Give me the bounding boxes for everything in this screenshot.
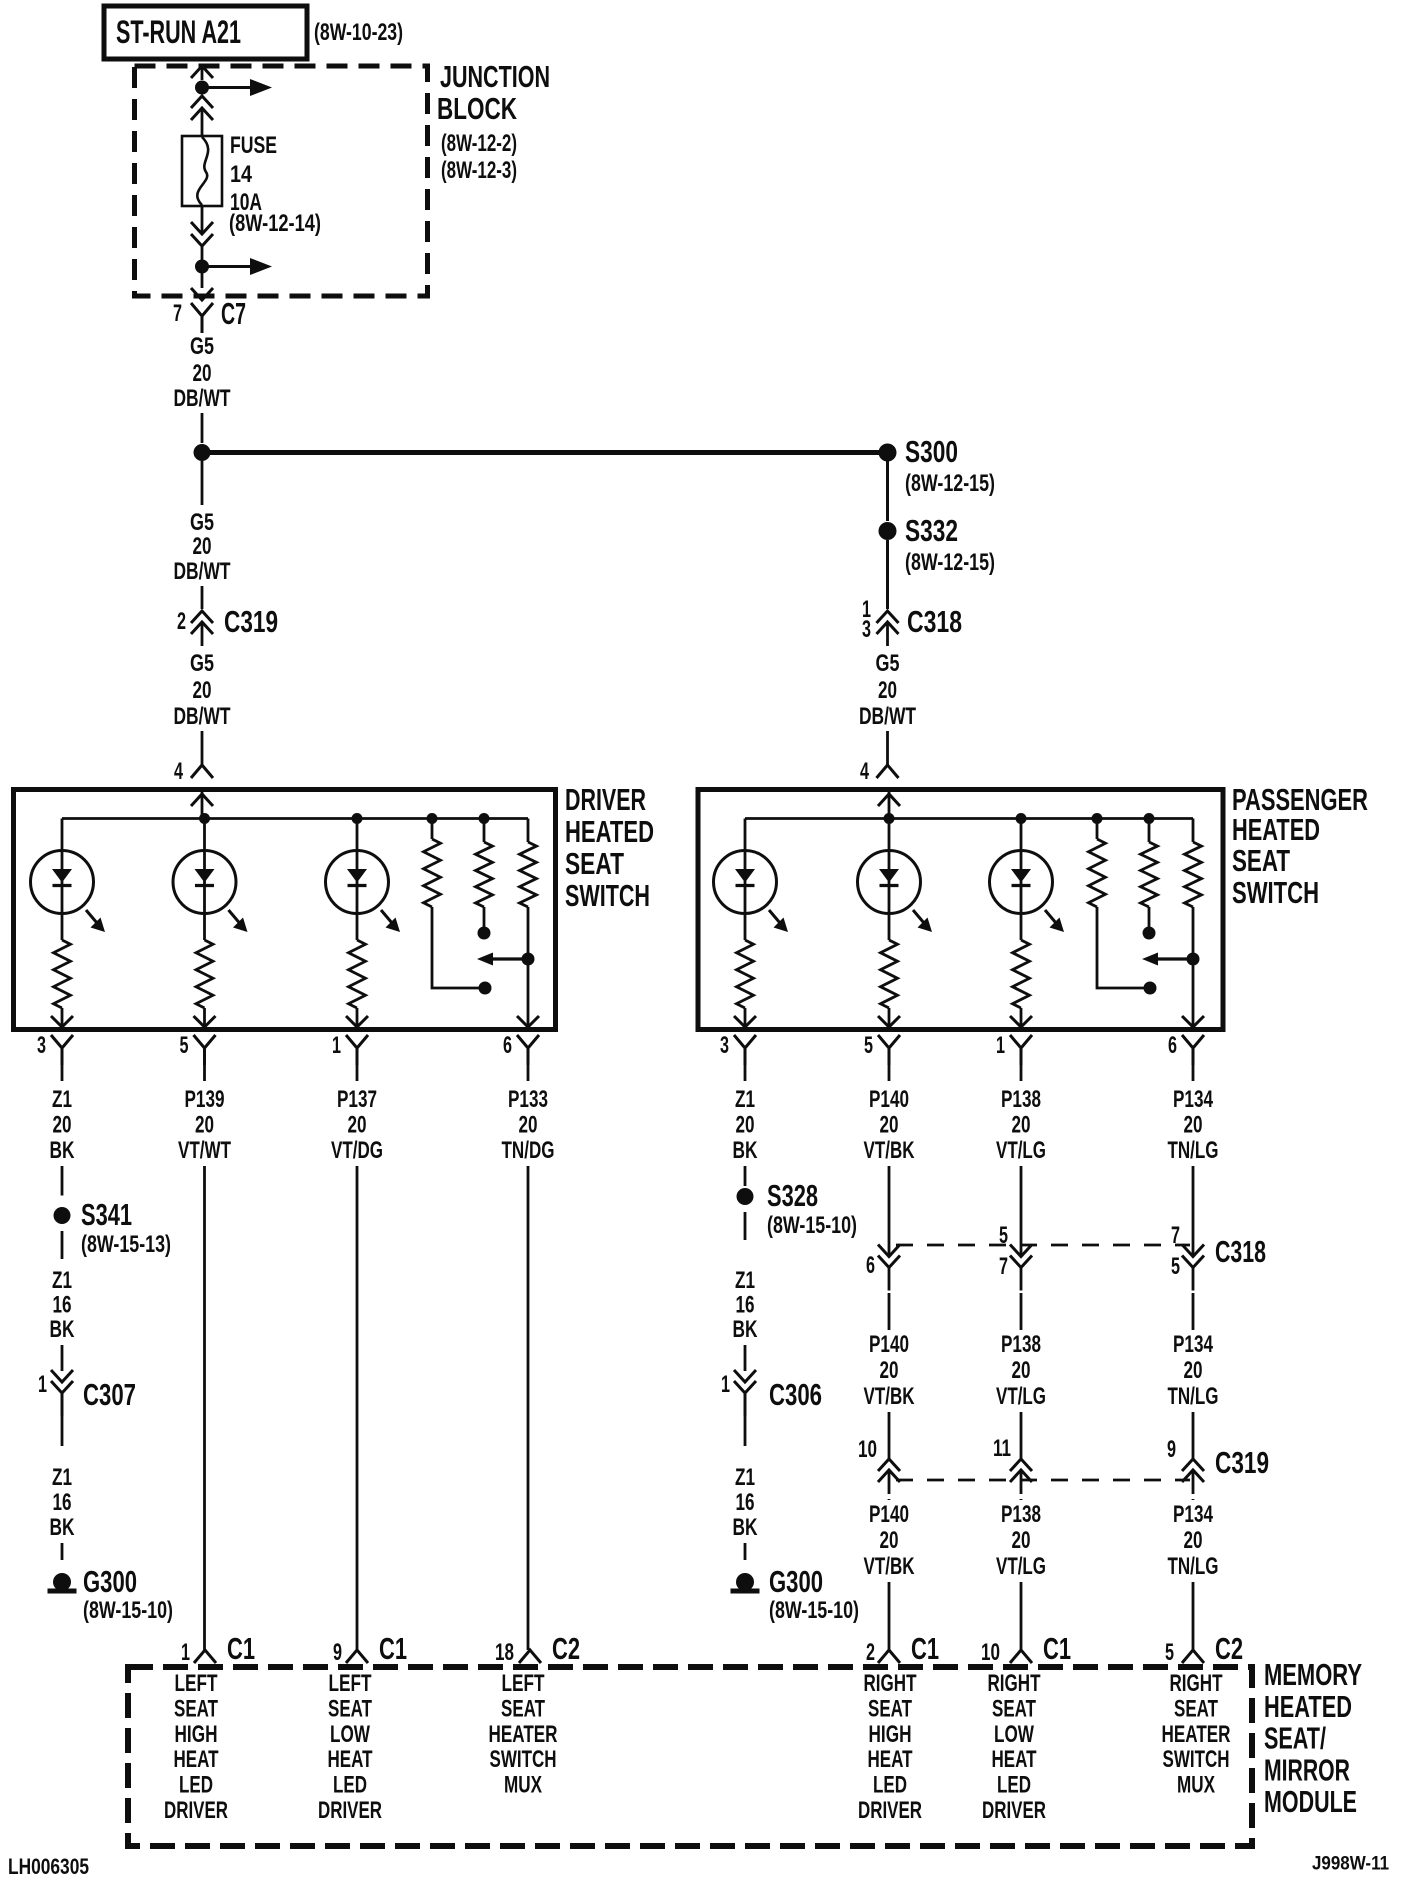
- svg-text:20: 20: [193, 533, 212, 560]
- svg-text:LED: LED: [333, 1772, 367, 1799]
- svg-text:C319: C319: [224, 604, 278, 639]
- svg-text:3: 3: [37, 1032, 46, 1059]
- svg-text:G5: G5: [190, 650, 214, 677]
- svg-text:Z1: Z1: [735, 1267, 755, 1294]
- svg-text:SEAT/: SEAT/: [1264, 1721, 1326, 1756]
- svg-text:HEATED: HEATED: [1232, 812, 1320, 847]
- svg-text:C1: C1: [911, 1631, 939, 1666]
- svg-text:S328: S328: [767, 1178, 818, 1213]
- svg-text:VT/BK: VT/BK: [864, 1137, 915, 1164]
- svg-text:10: 10: [981, 1639, 1000, 1666]
- svg-text:20: 20: [736, 1112, 755, 1139]
- svg-text:20: 20: [1012, 1357, 1031, 1384]
- svg-text:LEFT: LEFT: [502, 1670, 545, 1697]
- svg-text:1: 1: [332, 1032, 341, 1059]
- svg-text:C306: C306: [769, 1377, 822, 1412]
- svg-text:TN/LG: TN/LG: [1168, 1137, 1219, 1164]
- svg-text:P138: P138: [1001, 1331, 1041, 1358]
- svg-text:P140: P140: [869, 1086, 909, 1113]
- svg-text:C318: C318: [907, 604, 962, 639]
- svg-text:G300: G300: [769, 1564, 823, 1599]
- svg-text:C307: C307: [83, 1377, 136, 1412]
- svg-text:S341: S341: [81, 1197, 132, 1232]
- svg-text:J998W-11: J998W-11: [1312, 1854, 1389, 1875]
- svg-text:VT/BK: VT/BK: [864, 1553, 915, 1580]
- svg-text:20: 20: [880, 1527, 899, 1554]
- svg-text:4: 4: [860, 758, 869, 785]
- svg-text:P134: P134: [1173, 1331, 1213, 1358]
- svg-text:9: 9: [1167, 1436, 1176, 1463]
- svg-text:20: 20: [193, 360, 212, 387]
- svg-text:14: 14: [230, 161, 253, 188]
- svg-text:DRIVER: DRIVER: [318, 1797, 382, 1824]
- svg-text:S300: S300: [905, 434, 958, 469]
- svg-text:P134: P134: [1173, 1086, 1213, 1113]
- svg-text:S332: S332: [905, 513, 958, 548]
- svg-text:HEATER: HEATER: [1162, 1721, 1231, 1748]
- svg-text:4: 4: [174, 758, 183, 785]
- svg-text:DB/WT: DB/WT: [174, 558, 231, 585]
- svg-text:2: 2: [177, 608, 186, 635]
- svg-text:20: 20: [1012, 1112, 1031, 1139]
- svg-text:BK: BK: [50, 1137, 75, 1164]
- svg-text:6: 6: [866, 1252, 875, 1279]
- svg-text:SEAT: SEAT: [174, 1695, 218, 1722]
- svg-text:C2: C2: [552, 1631, 580, 1666]
- svg-text:JUNCTION: JUNCTION: [440, 59, 550, 94]
- svg-text:SEAT: SEAT: [1174, 1695, 1218, 1722]
- svg-text:VT/LG: VT/LG: [996, 1383, 1046, 1410]
- svg-text:SEAT: SEAT: [992, 1695, 1036, 1722]
- svg-text:DB/WT: DB/WT: [174, 703, 231, 730]
- svg-text:SWITCH: SWITCH: [1232, 875, 1319, 910]
- svg-text:BK: BK: [50, 1316, 75, 1343]
- svg-text:RIGHT: RIGHT: [988, 1670, 1041, 1697]
- svg-text:Z1: Z1: [735, 1464, 755, 1491]
- svg-text:1: 1: [721, 1371, 730, 1398]
- svg-text:5: 5: [1165, 1639, 1174, 1666]
- svg-text:HEATER: HEATER: [489, 1721, 558, 1748]
- svg-text:MEMORY: MEMORY: [1264, 1657, 1362, 1692]
- svg-text:P140: P140: [869, 1331, 909, 1358]
- svg-text:BK: BK: [733, 1137, 758, 1164]
- svg-text:20: 20: [195, 1112, 214, 1139]
- svg-text:C1: C1: [227, 1631, 255, 1666]
- svg-text:SEAT: SEAT: [328, 1695, 372, 1722]
- svg-text:20: 20: [519, 1112, 538, 1139]
- svg-text:ST-RUN A21: ST-RUN A21: [116, 14, 241, 50]
- svg-text:1: 1: [38, 1371, 47, 1398]
- svg-text:SEAT: SEAT: [1232, 843, 1290, 878]
- svg-text:SEAT: SEAT: [868, 1695, 912, 1722]
- svg-text:DB/WT: DB/WT: [859, 703, 916, 730]
- svg-text:FUSE: FUSE: [230, 132, 277, 159]
- svg-text:MIRROR: MIRROR: [1264, 1752, 1350, 1787]
- svg-text:SEAT: SEAT: [565, 846, 624, 881]
- svg-text:18: 18: [495, 1639, 514, 1666]
- svg-text:20: 20: [193, 677, 212, 704]
- svg-text:5: 5: [180, 1032, 189, 1059]
- svg-text:20: 20: [880, 1112, 899, 1139]
- svg-text:VT/WT: VT/WT: [178, 1137, 231, 1164]
- svg-text:G5: G5: [190, 509, 214, 536]
- svg-text:3: 3: [862, 616, 871, 643]
- svg-text:BK: BK: [50, 1514, 75, 1541]
- svg-text:C2: C2: [1215, 1631, 1243, 1666]
- svg-text:(8W-15-13): (8W-15-13): [81, 1231, 171, 1258]
- svg-text:5: 5: [864, 1032, 873, 1059]
- svg-text:C318: C318: [1215, 1234, 1266, 1269]
- svg-text:LED: LED: [873, 1772, 907, 1799]
- svg-text:16: 16: [736, 1292, 755, 1319]
- svg-text:20: 20: [880, 1357, 899, 1384]
- svg-text:RIGHT: RIGHT: [1170, 1670, 1223, 1697]
- svg-text:5: 5: [1171, 1253, 1180, 1280]
- svg-text:DRIVER: DRIVER: [858, 1797, 922, 1824]
- svg-text:16: 16: [736, 1489, 755, 1516]
- svg-text:HIGH: HIGH: [175, 1721, 218, 1748]
- svg-text:C319: C319: [1215, 1445, 1269, 1480]
- svg-text:HEAT: HEAT: [992, 1746, 1037, 1773]
- svg-text:TN/LG: TN/LG: [1168, 1553, 1219, 1580]
- svg-text:6: 6: [503, 1032, 512, 1059]
- svg-text:RIGHT: RIGHT: [864, 1670, 917, 1697]
- svg-text:1: 1: [996, 1032, 1005, 1059]
- svg-text:6: 6: [1168, 1032, 1177, 1059]
- svg-text:P140: P140: [869, 1501, 909, 1528]
- svg-text:(8W-12-14): (8W-12-14): [229, 210, 321, 237]
- svg-text:(8W-15-10): (8W-15-10): [83, 1597, 173, 1624]
- svg-text:LH006305: LH006305: [8, 1854, 89, 1879]
- svg-text:MODULE: MODULE: [1264, 1784, 1357, 1819]
- svg-text:(8W-15-10): (8W-15-10): [769, 1597, 859, 1624]
- svg-text:11: 11: [993, 1435, 1011, 1462]
- svg-text:LOW: LOW: [330, 1721, 370, 1748]
- svg-text:1: 1: [181, 1639, 190, 1666]
- svg-text:G5: G5: [876, 650, 900, 677]
- svg-text:Z1: Z1: [52, 1267, 72, 1294]
- svg-text:2: 2: [866, 1639, 875, 1666]
- svg-text:3: 3: [720, 1032, 729, 1059]
- svg-text:(8W-15-10): (8W-15-10): [767, 1212, 857, 1239]
- svg-text:SWITCH: SWITCH: [565, 878, 650, 913]
- svg-text:P139: P139: [185, 1086, 225, 1113]
- svg-text:DB/WT: DB/WT: [174, 385, 231, 412]
- svg-text:10: 10: [858, 1436, 877, 1463]
- svg-text:HEATED: HEATED: [565, 814, 654, 849]
- svg-text:20: 20: [878, 677, 897, 704]
- svg-text:G5: G5: [190, 333, 214, 360]
- svg-text:DRIVER: DRIVER: [565, 782, 646, 817]
- svg-text:VT/LG: VT/LG: [996, 1553, 1046, 1580]
- svg-text:20: 20: [1012, 1527, 1031, 1554]
- svg-text:(8W-12-2): (8W-12-2): [441, 130, 517, 157]
- svg-text:TN/LG: TN/LG: [1168, 1383, 1219, 1410]
- svg-text:DRIVER: DRIVER: [164, 1797, 228, 1824]
- svg-text:9: 9: [333, 1639, 342, 1666]
- svg-text:VT/BK: VT/BK: [864, 1383, 915, 1410]
- svg-text:BK: BK: [733, 1514, 758, 1541]
- svg-text:7: 7: [173, 300, 182, 327]
- svg-text:16: 16: [53, 1489, 72, 1516]
- svg-text:P137: P137: [337, 1086, 377, 1113]
- svg-text:HEAT: HEAT: [174, 1746, 219, 1773]
- svg-text:TN/DG: TN/DG: [502, 1137, 555, 1164]
- svg-text:BK: BK: [733, 1316, 758, 1343]
- svg-text:C1: C1: [1043, 1631, 1071, 1666]
- svg-text:Z1: Z1: [735, 1086, 755, 1113]
- svg-text:7: 7: [999, 1253, 1008, 1280]
- svg-text:20: 20: [1184, 1357, 1203, 1384]
- svg-text:20: 20: [1184, 1112, 1203, 1139]
- svg-text:MUX: MUX: [1177, 1772, 1215, 1799]
- svg-text:LED: LED: [997, 1772, 1031, 1799]
- svg-text:VT/DG: VT/DG: [331, 1137, 383, 1164]
- svg-text:(8W-12-3): (8W-12-3): [441, 157, 517, 184]
- svg-text:P138: P138: [1001, 1501, 1041, 1528]
- svg-text:Z1: Z1: [52, 1464, 72, 1491]
- svg-text:P134: P134: [1173, 1501, 1213, 1528]
- svg-text:LEFT: LEFT: [175, 1670, 218, 1697]
- svg-text:G300: G300: [83, 1564, 137, 1599]
- svg-text:P133: P133: [508, 1086, 548, 1113]
- svg-text:16: 16: [53, 1292, 72, 1319]
- svg-text:(8W-12-15): (8W-12-15): [905, 549, 995, 576]
- svg-text:MUX: MUX: [504, 1772, 542, 1799]
- svg-text:LEFT: LEFT: [329, 1670, 372, 1697]
- svg-text:C7: C7: [221, 296, 246, 331]
- svg-text:(8W-10-23): (8W-10-23): [314, 19, 403, 46]
- svg-text:20: 20: [348, 1112, 367, 1139]
- svg-text:5: 5: [999, 1222, 1008, 1249]
- svg-text:HEAT: HEAT: [868, 1746, 913, 1773]
- svg-text:HEAT: HEAT: [328, 1746, 373, 1773]
- svg-text:SWITCH: SWITCH: [490, 1746, 557, 1773]
- svg-text:HIGH: HIGH: [869, 1721, 912, 1748]
- svg-text:C1: C1: [379, 1631, 407, 1666]
- svg-text:LOW: LOW: [994, 1721, 1034, 1748]
- svg-text:SWITCH: SWITCH: [1163, 1746, 1230, 1773]
- svg-text:VT/LG: VT/LG: [996, 1137, 1046, 1164]
- svg-text:P138: P138: [1001, 1086, 1041, 1113]
- svg-text:Z1: Z1: [52, 1086, 72, 1113]
- svg-text:DRIVER: DRIVER: [982, 1797, 1046, 1824]
- svg-text:20: 20: [53, 1112, 72, 1139]
- svg-text:BLOCK: BLOCK: [437, 91, 517, 126]
- svg-text:HEATED: HEATED: [1264, 1689, 1352, 1724]
- svg-text:SEAT: SEAT: [501, 1695, 545, 1722]
- svg-text:7: 7: [1171, 1222, 1180, 1249]
- svg-text:20: 20: [1184, 1527, 1203, 1554]
- svg-text:LED: LED: [179, 1772, 213, 1799]
- svg-text:(8W-12-15): (8W-12-15): [905, 470, 995, 497]
